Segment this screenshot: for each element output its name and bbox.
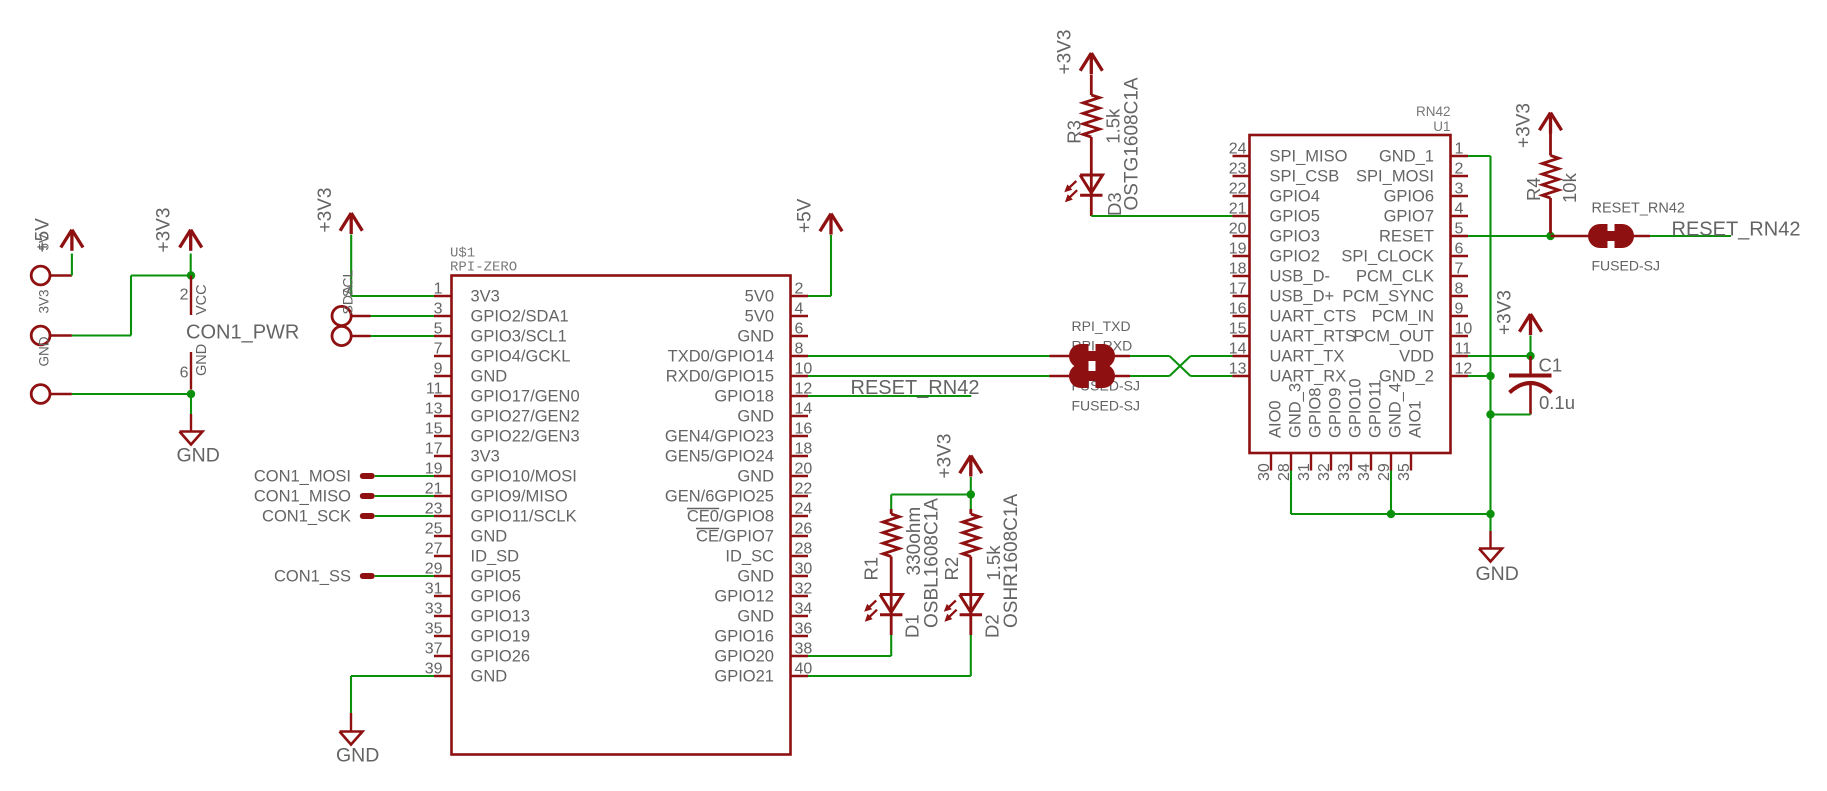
svg-text:25: 25 bbox=[425, 521, 443, 538]
resistor R1 bbox=[883, 514, 899, 557]
wire bbox=[808, 395, 971, 397]
U1 pin 32 stub bbox=[1330, 453, 1332, 471]
svg-text:SPI_CSB: SPI_CSB bbox=[1270, 168, 1340, 186]
svg-text:15: 15 bbox=[425, 421, 443, 438]
svg-text:VDD: VDD bbox=[1399, 348, 1434, 366]
svg-text:3V3: 3V3 bbox=[37, 289, 52, 313]
resistor R4 bottom lead bbox=[1549, 213, 1552, 234]
overline CE0 bbox=[687, 508, 719, 510]
U$1 pin 10 stub bbox=[791, 375, 809, 377]
svg-text:C1: C1 bbox=[1539, 355, 1563, 376]
svg-text:GPIO17/GEN0: GPIO17/GEN0 bbox=[471, 388, 580, 406]
U$1 pin 18 stub bbox=[791, 455, 809, 457]
U1 pin 12 stub bbox=[1451, 375, 1469, 377]
svg-text:15: 15 bbox=[1229, 321, 1247, 338]
overline CE bbox=[696, 528, 719, 530]
svg-text:PCM_IN: PCM_IN bbox=[1372, 308, 1434, 326]
U1 pin 3 stub bbox=[1451, 195, 1469, 197]
junction bbox=[187, 390, 195, 398]
svg-text:34: 34 bbox=[795, 601, 813, 618]
svg-text:GND: GND bbox=[177, 445, 220, 467]
capacitor C1 top plate bbox=[1509, 374, 1552, 378]
U$1 pin 12 stub bbox=[791, 395, 809, 397]
svg-text:GND_1: GND_1 bbox=[1379, 148, 1434, 166]
U$1 pin 28 stub bbox=[791, 555, 809, 557]
svg-text:33: 33 bbox=[425, 601, 443, 618]
IC U1 RN42 body bbox=[1250, 135, 1451, 453]
svg-text:RN42: RN42 bbox=[1416, 104, 1451, 119]
svg-text:USB_D-: USB_D- bbox=[1270, 268, 1331, 286]
svg-text:17: 17 bbox=[425, 441, 443, 458]
svg-text:GPIO7: GPIO7 bbox=[1384, 208, 1434, 226]
U$1 pin 24 stub bbox=[791, 515, 809, 517]
wire bbox=[1290, 471, 1292, 515]
svg-text:GPIO6: GPIO6 bbox=[471, 588, 521, 606]
net stub CON1_MOSI bbox=[360, 473, 375, 479]
IC U$1 RPI-ZERO body bbox=[452, 276, 791, 755]
svg-text:GND: GND bbox=[336, 745, 379, 767]
wire bbox=[1468, 375, 1491, 377]
svg-text:RESET: RESET bbox=[1379, 228, 1434, 246]
svg-text:23: 23 bbox=[1229, 161, 1247, 178]
svg-text:19: 19 bbox=[1229, 241, 1247, 258]
svg-text:GPIO20: GPIO20 bbox=[714, 648, 774, 666]
wire bbox=[371, 335, 435, 337]
svg-text:RESET_RN42: RESET_RN42 bbox=[1672, 219, 1801, 241]
capacitor C1 bottom plate bbox=[1510, 383, 1552, 393]
resistor R3 top lead bbox=[1090, 75, 1093, 96]
svg-text:UART_CTS: UART_CTS bbox=[1270, 308, 1357, 326]
svg-text:31: 31 bbox=[1296, 463, 1313, 481]
svg-text:AIO0: AIO0 bbox=[1267, 400, 1285, 438]
wire bbox=[890, 635, 892, 656]
svg-text:SPI_MOSI: SPI_MOSI bbox=[1356, 168, 1434, 186]
svg-text:GEN/6GPIO25: GEN/6GPIO25 bbox=[665, 488, 774, 506]
LED D3 bbox=[1080, 175, 1102, 193]
U$1 pin 14 stub bbox=[791, 415, 809, 417]
U$1 pin 6 stub bbox=[791, 335, 809, 337]
net stub CON1_MISO bbox=[360, 493, 375, 499]
svg-text:GPIO10: GPIO10 bbox=[1347, 378, 1365, 438]
U1 pin 1 stub bbox=[1451, 155, 1469, 157]
U$1 pin 33 stub bbox=[434, 615, 452, 617]
LED D3 emission arrows bbox=[1069, 181, 1076, 188]
U$1 pin 13 stub bbox=[434, 415, 452, 417]
junction bbox=[1486, 410, 1494, 418]
svg-text:R2: R2 bbox=[941, 557, 962, 581]
wire bbox=[808, 675, 971, 677]
junction bbox=[187, 271, 195, 279]
svg-text:TXD0/GPIO14: TXD0/GPIO14 bbox=[668, 348, 774, 366]
U$1 pin 3 stub bbox=[434, 315, 452, 317]
wire bbox=[1291, 513, 1491, 515]
svg-text:GPIO4/GCKL: GPIO4/GCKL bbox=[471, 348, 571, 366]
wire bbox=[190, 254, 192, 276]
svg-text:1: 1 bbox=[1455, 141, 1464, 158]
svg-text:GND: GND bbox=[471, 668, 508, 686]
svg-text:0.1u: 0.1u bbox=[1539, 392, 1575, 413]
svg-text:GPIO5: GPIO5 bbox=[471, 568, 521, 586]
ground symbol bbox=[180, 432, 203, 445]
U$1 pin 16 stub bbox=[791, 435, 809, 437]
connector CON1_PWR pad 1 (5V) bbox=[31, 266, 50, 285]
junction bbox=[1546, 232, 1554, 240]
svg-text:PCM_SYNC: PCM_SYNC bbox=[1342, 288, 1434, 306]
ground pin bbox=[1489, 531, 1491, 549]
svg-text:GPIO13: GPIO13 bbox=[471, 608, 531, 626]
svg-text:UART_TX: UART_TX bbox=[1270, 348, 1345, 366]
resistor R2 bottom lead bbox=[969, 557, 972, 615]
svg-text:GND: GND bbox=[737, 328, 774, 346]
U$1 pin 19 stub bbox=[434, 475, 452, 477]
wire bbox=[970, 477, 972, 495]
svg-text:6: 6 bbox=[1455, 241, 1464, 258]
svg-text:13: 13 bbox=[425, 401, 443, 418]
svg-text:7: 7 bbox=[1455, 261, 1464, 278]
U$1 pin 30 stub bbox=[791, 575, 809, 577]
svg-text:GND_2: GND_2 bbox=[1379, 368, 1434, 386]
svg-text:21: 21 bbox=[1229, 201, 1247, 218]
wire bbox=[1529, 336, 1531, 357]
U1 pin 5 stub bbox=[1451, 235, 1469, 237]
wire bbox=[375, 575, 434, 577]
U$1 pin 1 stub bbox=[434, 295, 452, 297]
svg-text:GND: GND bbox=[471, 368, 508, 386]
svg-text:2: 2 bbox=[1455, 161, 1464, 178]
U$1 pin 11 stub bbox=[434, 395, 452, 397]
svg-text:OSBL1608C1A: OSBL1608C1A bbox=[922, 498, 943, 628]
svg-text:GPIO11/SCLK: GPIO11/SCLK bbox=[471, 508, 577, 526]
wire bbox=[350, 676, 352, 713]
U1 pin 23 stub bbox=[1233, 175, 1250, 177]
supply +3V3 arrow bbox=[960, 456, 971, 474]
resistor R1 top lead bbox=[890, 509, 893, 514]
svg-text:GPIO11: GPIO11 bbox=[1367, 380, 1385, 438]
U1 pin 4 stub bbox=[1451, 215, 1469, 217]
wire bbox=[1130, 355, 1170, 357]
svg-text:22: 22 bbox=[1229, 181, 1247, 198]
svg-text:U1: U1 bbox=[1433, 119, 1450, 134]
svg-text:2: 2 bbox=[180, 287, 189, 304]
svg-text:10k: 10k bbox=[1559, 172, 1580, 203]
wire bbox=[375, 515, 434, 517]
resistor R1 bottom lead bbox=[890, 557, 893, 615]
wire bbox=[1489, 514, 1491, 531]
supply +3V3 arrow bbox=[1539, 113, 1550, 131]
jumper SJ1 pin wire bbox=[1050, 355, 1131, 357]
U$1 pin 5 stub bbox=[434, 335, 452, 337]
svg-text:D1: D1 bbox=[902, 614, 923, 638]
LED D1 emission arrows bbox=[869, 601, 876, 608]
svg-text:UART_RX: UART_RX bbox=[1270, 368, 1347, 386]
junction bbox=[1526, 352, 1534, 360]
LED D2 bbox=[960, 595, 982, 613]
svg-text:GPIO3: GPIO3 bbox=[1270, 228, 1320, 246]
svg-text:9: 9 bbox=[1455, 301, 1464, 318]
svg-text:14: 14 bbox=[1229, 341, 1247, 358]
U$1 pin 39 stub bbox=[434, 675, 452, 677]
wire bbox=[1491, 413, 1531, 415]
wire bbox=[72, 393, 191, 395]
jumper SJ2 pin wire bbox=[1050, 375, 1131, 377]
svg-text:6: 6 bbox=[795, 321, 804, 338]
svg-text:ID_SC: ID_SC bbox=[725, 548, 774, 566]
wire bbox=[1468, 235, 1551, 237]
wire bbox=[190, 394, 192, 414]
svg-text:GND: GND bbox=[1476, 563, 1519, 585]
svg-text:34: 34 bbox=[1356, 463, 1373, 481]
wire bbox=[371, 315, 435, 317]
svg-text:+3V3: +3V3 bbox=[935, 434, 956, 479]
jumper SJ1 FUSED-SJ bbox=[1069, 344, 1089, 368]
U1 pin 8 stub bbox=[1451, 295, 1469, 297]
svg-text:8: 8 bbox=[795, 341, 804, 358]
svg-text:PCM_CLK: PCM_CLK bbox=[1356, 268, 1434, 286]
svg-text:GND: GND bbox=[737, 468, 774, 486]
svg-text:GPIO6: GPIO6 bbox=[1384, 188, 1434, 206]
capacitor C1 top lead bbox=[1529, 356, 1532, 374]
U1 pin 21 stub bbox=[1233, 215, 1250, 217]
wire bbox=[808, 295, 831, 297]
svg-text:26: 26 bbox=[795, 521, 813, 538]
resistor R3 bbox=[1083, 95, 1099, 137]
net stub CON1_SCK bbox=[360, 513, 375, 519]
U1 pin 17 stub bbox=[1233, 295, 1250, 297]
svg-text:+5V: +5V bbox=[33, 218, 54, 253]
svg-text:OSHR1608C1A: OSHR1608C1A bbox=[1001, 494, 1022, 628]
wire bbox=[1191, 375, 1233, 377]
svg-text:35: 35 bbox=[425, 621, 443, 638]
U1 pin 29 stub bbox=[1390, 453, 1392, 471]
wire bbox=[1191, 355, 1233, 357]
svg-text:R4: R4 bbox=[1523, 177, 1544, 201]
svg-text:13: 13 bbox=[1229, 361, 1247, 378]
net stub CON1_SS bbox=[360, 573, 375, 579]
wire crossover bbox=[1170, 356, 1191, 376]
U$1 pin 2 stub bbox=[791, 295, 809, 297]
supply +5V arrow bbox=[61, 230, 72, 248]
svg-text:RXD0/GPIO15: RXD0/GPIO15 bbox=[666, 368, 774, 386]
svg-text:35: 35 bbox=[1396, 463, 1413, 481]
svg-text:GND: GND bbox=[37, 336, 52, 366]
junction bbox=[1486, 510, 1494, 518]
svg-text:GEN4/GPIO23: GEN4/GPIO23 bbox=[665, 428, 774, 446]
U$1 pin 22 stub bbox=[791, 495, 809, 497]
U1 pin 30 stub bbox=[1270, 453, 1272, 471]
supply +3V3 arrow bbox=[180, 230, 191, 248]
svg-text:GPIO2: GPIO2 bbox=[1270, 248, 1320, 266]
svg-text:+3V3: +3V3 bbox=[1495, 290, 1516, 335]
U1 pin 19 stub bbox=[1233, 255, 1250, 257]
svg-text:GND_4: GND_4 bbox=[1387, 383, 1405, 438]
jumper SJ3 FUSED-SJ bbox=[1588, 224, 1608, 248]
svg-text:CON1_PWR: CON1_PWR bbox=[186, 322, 299, 344]
svg-text:18: 18 bbox=[795, 441, 813, 458]
U$1 pin 21 stub bbox=[434, 495, 452, 497]
wire bbox=[375, 475, 434, 477]
U$1 pin 34 stub bbox=[791, 615, 809, 617]
U$1 pin 29 stub bbox=[434, 575, 452, 577]
U1 pin 20 stub bbox=[1233, 235, 1250, 237]
svg-text:GND: GND bbox=[737, 608, 774, 626]
svg-text:8: 8 bbox=[1455, 281, 1464, 298]
svg-text:GPIO21: GPIO21 bbox=[714, 668, 774, 686]
wire bbox=[1489, 156, 1491, 514]
wire bbox=[71, 254, 73, 276]
U1 pin 16 stub bbox=[1233, 315, 1250, 317]
svg-text:GPIO8: GPIO8 bbox=[1307, 388, 1325, 438]
resistor R4 bbox=[1542, 156, 1558, 199]
svg-text:GPIO26: GPIO26 bbox=[471, 648, 531, 666]
U$1 pin 15 stub bbox=[434, 435, 452, 437]
U$1 pin 27 stub bbox=[434, 555, 452, 557]
U1 pin 13 stub bbox=[1233, 375, 1250, 377]
wire bbox=[350, 235, 352, 297]
wire RPI_TXD bbox=[808, 355, 1050, 357]
resistor R3 bottom lead bbox=[1090, 137, 1093, 196]
U$1 pin 40 stub bbox=[791, 675, 809, 677]
U1 pin 15 stub bbox=[1233, 335, 1250, 337]
U$1 pin 23 stub bbox=[434, 515, 452, 517]
U$1 pin 38 stub bbox=[791, 655, 809, 657]
svg-text:2: 2 bbox=[795, 281, 804, 298]
supply +3V3 arrow bbox=[1080, 53, 1091, 71]
svg-text:GND: GND bbox=[737, 408, 774, 426]
U1 pin 22 stub bbox=[1233, 195, 1250, 197]
svg-text:17: 17 bbox=[1229, 281, 1247, 298]
svg-text:D3: D3 bbox=[1104, 192, 1125, 216]
svg-text:+3V3: +3V3 bbox=[1514, 103, 1535, 148]
svg-text:18: 18 bbox=[1229, 261, 1247, 278]
U$1 pin 8 stub bbox=[791, 355, 809, 357]
svg-text:GPIO10/MOSI: GPIO10/MOSI bbox=[471, 468, 577, 486]
capacitor C1 bottom lead bbox=[1529, 384, 1532, 415]
svg-text:36: 36 bbox=[795, 621, 813, 638]
wire RPI_RXD bbox=[808, 375, 1050, 377]
svg-text:28: 28 bbox=[795, 541, 813, 558]
U$1 pin 37 stub bbox=[434, 655, 452, 657]
U$1 pin 25 stub bbox=[434, 535, 452, 537]
svg-text:GND_3: GND_3 bbox=[1287, 383, 1305, 438]
ground symbol bbox=[1479, 549, 1502, 562]
svg-text:CON1_MOSI: CON1_MOSI bbox=[254, 468, 351, 486]
svg-text:16: 16 bbox=[795, 421, 813, 438]
svg-text:RESET_RN42: RESET_RN42 bbox=[1592, 201, 1685, 217]
pad SCL circle bbox=[332, 326, 351, 345]
svg-text:3: 3 bbox=[1455, 181, 1464, 198]
U1 pin 28 stub bbox=[1290, 453, 1292, 471]
U1 pin 18 stub bbox=[1233, 275, 1250, 277]
LED D2 emission arrows bbox=[949, 601, 956, 608]
U1 pin 24 stub bbox=[1233, 155, 1250, 157]
connector CON1_PWR pad 5 (GND) bbox=[31, 385, 50, 404]
U1 pin 35 stub bbox=[1410, 453, 1412, 471]
svg-text:4: 4 bbox=[1455, 201, 1464, 218]
U1 pin 33 stub bbox=[1350, 453, 1352, 471]
wire bbox=[1468, 355, 1531, 357]
svg-text:D2: D2 bbox=[982, 614, 1003, 638]
U$1 pin 17 stub bbox=[434, 455, 452, 457]
svg-text:+3V3: +3V3 bbox=[1055, 30, 1076, 75]
wire crossover bbox=[1170, 356, 1191, 376]
jumper SJ2 FUSED-SJ bbox=[1069, 364, 1089, 388]
svg-text:PCM_OUT: PCM_OUT bbox=[1353, 328, 1434, 346]
svg-text:5V0: 5V0 bbox=[745, 288, 774, 306]
svg-text:OSTG1608C1A: OSTG1608C1A bbox=[1122, 77, 1143, 210]
wire bbox=[1091, 215, 1232, 217]
supply +3V3 arrow bbox=[340, 213, 351, 231]
svg-text:GPIO4: GPIO4 bbox=[1270, 188, 1320, 206]
svg-text:ID_SD: ID_SD bbox=[471, 548, 520, 566]
svg-text:3V3: 3V3 bbox=[471, 448, 500, 466]
svg-text:CON1_MISO: CON1_MISO bbox=[254, 488, 351, 506]
junction bbox=[967, 490, 975, 498]
svg-text:GND: GND bbox=[194, 344, 210, 376]
svg-text:10: 10 bbox=[1455, 321, 1473, 338]
U$1 pin 31 stub bbox=[434, 595, 452, 597]
svg-text:GND: GND bbox=[737, 568, 774, 586]
svg-text:5: 5 bbox=[1455, 221, 1464, 238]
wire bbox=[1650, 235, 1731, 237]
svg-text:9: 9 bbox=[434, 361, 443, 378]
svg-text:GPIO12: GPIO12 bbox=[714, 588, 774, 606]
svg-text:SCL: SCL bbox=[340, 270, 356, 297]
wire bbox=[375, 495, 434, 497]
U$1 pin 9 stub bbox=[434, 375, 452, 377]
U1 pin 2 stub bbox=[1451, 175, 1469, 177]
wire bbox=[72, 334, 131, 336]
svg-text:GPIO2/SDA1: GPIO2/SDA1 bbox=[471, 308, 569, 326]
svg-text:SPI_MISO: SPI_MISO bbox=[1270, 148, 1348, 166]
svg-text:16: 16 bbox=[1229, 301, 1247, 318]
wire bbox=[890, 495, 892, 510]
wire bbox=[1130, 375, 1170, 377]
wire bbox=[351, 295, 434, 297]
U1 pin 34 stub bbox=[1370, 453, 1372, 471]
svg-text:32: 32 bbox=[1316, 463, 1333, 481]
svg-text:4: 4 bbox=[795, 301, 804, 318]
svg-text:AIO1: AIO1 bbox=[1407, 400, 1425, 438]
CON1_PWR pin 2 stub bbox=[190, 276, 192, 316]
LED D1 bbox=[880, 595, 902, 613]
svg-text:USB_D+: USB_D+ bbox=[1270, 288, 1335, 306]
svg-text:20: 20 bbox=[1229, 221, 1247, 238]
U1 pin 9 stub bbox=[1451, 315, 1469, 317]
svg-text:6: 6 bbox=[180, 365, 189, 382]
svg-text:GPIO22/GEN3: GPIO22/GEN3 bbox=[471, 428, 580, 446]
ground symbol bbox=[340, 732, 363, 745]
pad SDA circle bbox=[332, 306, 351, 325]
wire bbox=[131, 274, 191, 276]
U1 pin 31 stub bbox=[1310, 453, 1312, 471]
svg-text:7: 7 bbox=[434, 341, 443, 358]
svg-text:24: 24 bbox=[795, 501, 813, 518]
wire bbox=[808, 655, 891, 657]
U1 pin 14 stub bbox=[1233, 355, 1250, 357]
svg-text:GND: GND bbox=[471, 528, 508, 546]
wire bbox=[1390, 471, 1392, 515]
svg-text:GEN5/GPIO24: GEN5/GPIO24 bbox=[665, 448, 774, 466]
junction bbox=[1387, 510, 1395, 518]
svg-text:R1: R1 bbox=[861, 557, 882, 581]
svg-text:33: 33 bbox=[1336, 463, 1353, 481]
svg-text:GPIO5: GPIO5 bbox=[1270, 208, 1320, 226]
U1 pin 7 stub bbox=[1451, 275, 1469, 277]
U$1 pin 36 stub bbox=[791, 635, 809, 637]
wire bbox=[130, 276, 132, 336]
svg-text:1: 1 bbox=[434, 281, 443, 298]
svg-text:14: 14 bbox=[795, 401, 813, 418]
